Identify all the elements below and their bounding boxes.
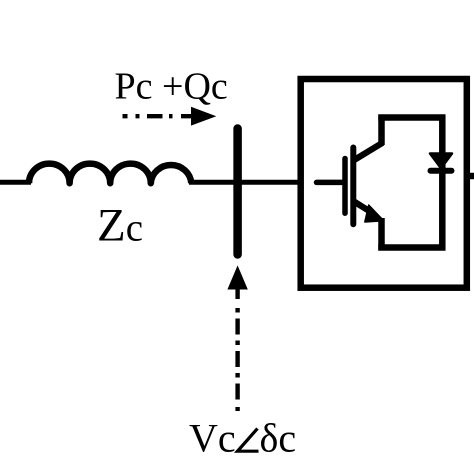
wire: diode branch vertical xyxy=(439,115,446,251)
wire: DC-side stub at right edge xyxy=(466,173,474,180)
wire: left lead into inductor xyxy=(0,180,31,185)
IGBT Q1: emitter diagonal with arrow xyxy=(355,202,384,222)
label: angle symbol xyxy=(238,429,259,452)
IGBT Q1: gate lead xyxy=(317,180,345,186)
diode D1: cathode bar xyxy=(431,168,452,174)
svg-text:Zc: Zc xyxy=(97,200,143,252)
wire: collector riser xyxy=(378,115,385,146)
arrow: Vc dash-dot arrow pointing up at bus xyxy=(227,265,247,411)
svg-text:Pc +Qc: Pc +Qc xyxy=(115,66,228,108)
wire: loop bottom rail xyxy=(378,244,445,251)
IGBT Q1: gate bar xyxy=(342,159,348,214)
IGBT Q1: body bar xyxy=(350,148,356,225)
diode D1: anode triangle xyxy=(430,154,452,169)
IGBT Q1: collector diagonal xyxy=(355,143,383,160)
wire: loop top rail xyxy=(378,114,445,121)
svg-text:Vc: Vc xyxy=(189,416,236,461)
wire: emitter drop xyxy=(378,218,385,251)
wire: inductor to bus and on to converter box xyxy=(189,180,300,185)
svg-text:δc: δc xyxy=(260,416,297,461)
node: bus bar (vertical) xyxy=(233,129,242,255)
arrow: power flow dash-dot arrow xyxy=(123,107,217,126)
inductor Zc (4-hump coil) xyxy=(29,164,191,184)
converter box U1 xyxy=(301,79,467,288)
